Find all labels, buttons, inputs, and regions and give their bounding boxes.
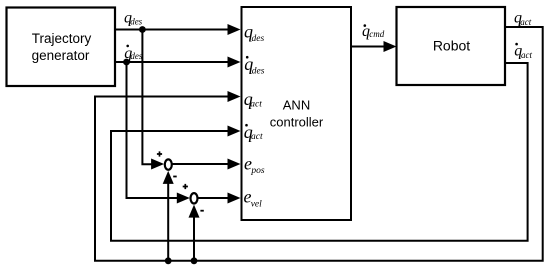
minus sign S1 (173, 176, 177, 178)
label q_dot_act (external right) (514, 43, 532, 61)
junction dot on q_dot_des wire (123, 59, 130, 66)
svg-text:act: act (251, 132, 263, 142)
svg-text:generator: generator (32, 48, 90, 63)
summing junction S1 (e_pos) (165, 159, 172, 169)
arrowhead ANN e_pos input (228, 159, 241, 170)
arrowhead Robot input (384, 41, 397, 52)
svg-text:des: des (252, 66, 265, 76)
label q_act (external top right) (514, 10, 532, 28)
svg-text:ANN: ANN (283, 97, 310, 112)
svg-text:Robot: Robot (433, 38, 470, 54)
junction dot on bottom q_act line (feeds S2) (191, 257, 198, 264)
svg-text:act: act (521, 50, 532, 60)
wire q_dot_des (trajectory to ANN) (115, 61, 229, 63)
summing junction S2 (e_vel) (191, 193, 198, 203)
junction dot on q_des wire (139, 26, 146, 33)
arrowhead into S2 bottom input (189, 205, 200, 218)
wire q_dot_cmd (ANN to Robot) (351, 46, 385, 48)
svg-text:act: act (520, 17, 531, 27)
arrowhead ANN q_act input (228, 91, 241, 102)
svg-text:Trajectory: Trajectory (32, 31, 92, 46)
wire q_des (trajectory to ANN) (115, 29, 229, 31)
svg-text:des: des (252, 34, 265, 44)
wire bottom feedback up into S1 (167, 183, 169, 261)
junction dot on bottom q_act line (feeds S1) (165, 257, 172, 264)
wire e_vel (S2 to ANN) (198, 197, 229, 199)
label e_vel (inside ANN) (244, 186, 263, 209)
svg-text:pos: pos (250, 166, 265, 176)
label q_des (inside ANN) (244, 21, 264, 44)
label q_dot_act (inside ANN) (244, 122, 263, 142)
svg-text:des: des (130, 17, 142, 27)
arrowhead into S1 left input (151, 159, 164, 170)
arrowhead ANN q_des input (228, 24, 241, 35)
svg-text:act: act (250, 100, 262, 110)
wire q_dot_act feedback loop (robot out, down, bottom, left side up, into ANN) (111, 63, 528, 241)
arrowhead ANN e_vel input (228, 193, 241, 204)
svg-text:controller: controller (270, 114, 324, 129)
arrowhead into S1 bottom input (163, 171, 174, 184)
label q_dot_des (external) (124, 45, 143, 62)
block Trajectory generator (7, 8, 116, 87)
svg-text:vel: vel (251, 200, 262, 210)
plus sign S1 (157, 151, 162, 156)
wire e_pos (S1 to ANN) (172, 163, 230, 165)
arrowhead ANN q_dot_act input (228, 126, 241, 137)
block Robot (397, 7, 506, 85)
wire q_dot_des drop to summing junction S2 (127, 62, 179, 198)
label q_dot_des (inside ANN) (244, 54, 264, 76)
wire q_act feedback loop (robot out, right side down, bottom, left side up, into ANN) (95, 27, 543, 261)
label q_dot_cmd (362, 23, 385, 40)
label q_act (inside ANN) (244, 89, 262, 110)
svg-text:des: des (130, 51, 142, 61)
arrowhead ANN q_dot_des input (228, 57, 241, 68)
label q_des (external) (124, 10, 143, 27)
arrowhead into S2 left input (177, 193, 190, 204)
svg-text:cmd: cmd (369, 29, 384, 39)
label e_pos (inside ANN) (244, 154, 265, 177)
block ANN controller (242, 7, 352, 220)
wire bottom feedback up into S2 (193, 217, 195, 261)
minus sign S2 (200, 210, 203, 212)
plus sign S2 (183, 184, 188, 189)
wire q_des drop to summing junction S1 (142, 30, 152, 165)
